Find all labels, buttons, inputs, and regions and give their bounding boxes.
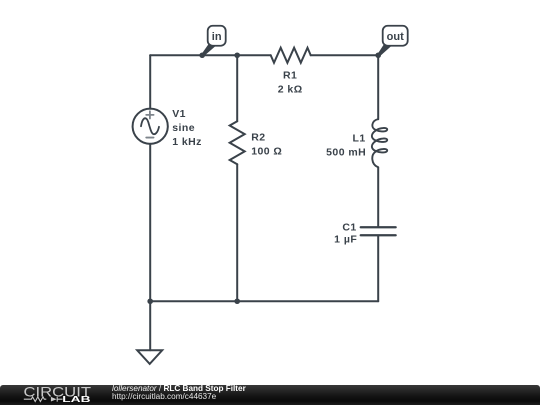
- svg-text:1 kHz: 1 kHz: [172, 136, 202, 148]
- junction dot at R2 top: [234, 52, 240, 58]
- junction dot at R2 bottom rail: [234, 298, 240, 304]
- L1 labels: [326, 132, 366, 158]
- wire top-left vertical (in node to V1 top): [149, 55, 151, 109]
- svg-text:LAB: LAB: [62, 395, 91, 404]
- voltage source V1: [133, 109, 168, 144]
- wire out node to L1 top: [377, 55, 379, 119]
- svg-text:V1: V1: [172, 108, 186, 120]
- node out tag: [383, 26, 408, 46]
- svg-text:1 µF: 1 µF: [334, 233, 357, 245]
- resistor R1: [271, 48, 311, 63]
- node in tag: [208, 26, 226, 46]
- resistor R2: [230, 121, 245, 164]
- svg-text:C1: C1: [342, 221, 356, 233]
- junction dot at V1 bottom rail: [147, 298, 153, 304]
- wire bottom rail: [150, 300, 378, 302]
- svg-text:100 Ω: 100 Ω: [251, 145, 282, 157]
- R1 labels: [278, 69, 303, 95]
- node out flag pointer: [378, 44, 392, 57]
- CircuitLab logo: [0, 385, 100, 405]
- node out junction dot: [375, 52, 381, 58]
- svg-text:L1: L1: [353, 132, 366, 144]
- wire R2 top (in rail to R2): [236, 55, 238, 121]
- wire C1 bottom to bottom rail: [377, 236, 379, 301]
- svg-text:2 kΩ: 2 kΩ: [278, 83, 303, 95]
- V1 labels: [172, 108, 202, 148]
- ground: [137, 350, 162, 364]
- node in junction dot: [199, 52, 205, 58]
- svg-text:R1: R1: [283, 69, 297, 81]
- svg-text:out: out: [387, 31, 404, 43]
- wire R2 bottom to bottom rail: [236, 164, 238, 301]
- R2 labels: [251, 131, 282, 157]
- wire ground stem: [149, 301, 151, 350]
- svg-text:R2: R2: [251, 131, 265, 143]
- wire R1 right to out node: [311, 54, 379, 56]
- wire V1 bottom to bottom rail: [149, 144, 151, 302]
- C1 labels: [334, 221, 357, 245]
- svg-text:500 mH: 500 mH: [326, 146, 366, 158]
- inductor L1: [372, 119, 387, 167]
- capacitor C1: [361, 227, 396, 235]
- footer bar: [0, 385, 540, 405]
- svg-text:sine: sine: [172, 122, 195, 134]
- svg-text:in: in: [212, 31, 222, 43]
- wire L1 bottom to C1 top: [377, 167, 379, 226]
- wire top horizontal (corner to R1 left): [150, 54, 271, 56]
- node in flag pointer: [202, 44, 215, 57]
